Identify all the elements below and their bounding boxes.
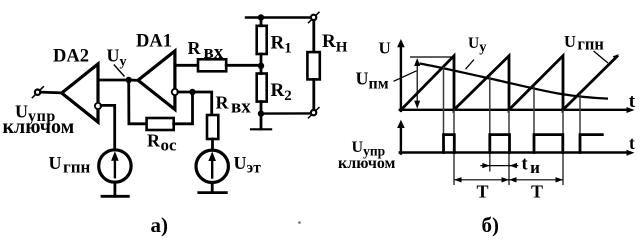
svg-text:T: T bbox=[477, 182, 489, 202]
svg-text:t: t bbox=[629, 133, 635, 153]
svg-text:DA1: DA1 bbox=[136, 32, 172, 52]
svg-text:Uгпн: Uгпн bbox=[564, 32, 604, 54]
svg-text:U: U bbox=[379, 39, 391, 58]
svg-text:DA2: DA2 bbox=[53, 47, 89, 67]
svg-text:Uгпн: Uгпн bbox=[49, 153, 91, 177]
svg-text:t: t bbox=[629, 91, 636, 112]
svg-text:tи: tи bbox=[522, 155, 541, 178]
svg-text:ключом: ключом bbox=[3, 116, 75, 138]
svg-text:ключом: ключом bbox=[338, 155, 396, 172]
svg-text:а): а) bbox=[151, 213, 169, 237]
svg-text:б): б) bbox=[482, 213, 500, 237]
svg-text:T: T bbox=[531, 182, 543, 202]
